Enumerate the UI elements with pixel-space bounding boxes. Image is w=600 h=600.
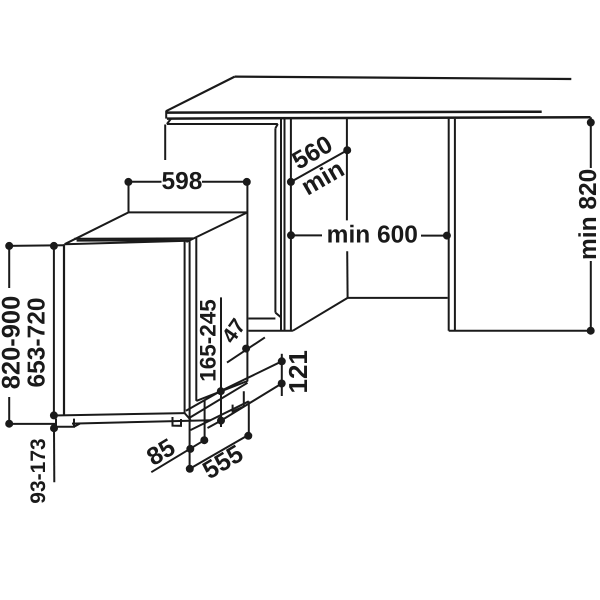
svg-text:165-245: 165-245: [196, 299, 221, 382]
niche floor slant edge: [293, 298, 348, 331]
dimension 47 leader: [227, 337, 265, 362]
niche left wall back edge: [290, 119, 292, 331]
niche back-left corner edge upper: [346, 118, 348, 221]
dimension 121 line: [281, 354, 283, 396]
left cabinet top edge: [167, 123, 278, 125]
worktop left end cap: [165, 111, 167, 119]
dishwasher feet bottom perspective line: [190, 401, 248, 430]
dishwasher front right foot: [173, 417, 182, 426]
dimension 93-173 top dot: [50, 424, 58, 432]
worktop front lower edge: [167, 117, 591, 118]
worktop top edge: [235, 77, 572, 79]
dishwasher door right reveal edge with extension to 85/555 dots: [189, 241, 191, 469]
dishwasher side bottom upper edge: [196, 381, 247, 401]
left cabinet bottom right chamfer: [275, 313, 281, 318]
dishwasher door bottom edge: [54, 413, 185, 415]
dimension 555 right extension: [248, 401, 250, 436]
dimension 555 line: [190, 435, 248, 469]
dimension min 820 line: [590, 117, 592, 330]
dimension 93-173 line: [53, 428, 55, 482]
left cabinet right edge: [274, 128, 276, 312]
dishwasher front left edge: [63, 244, 65, 415]
dimension min 600 left dot: [287, 231, 295, 239]
dimension 820-900 top dot: [5, 242, 13, 250]
dimension 165-245 line: [220, 297, 222, 427]
left cabinet top right chamfer: [275, 124, 277, 128]
dimension 598 line: [128, 181, 246, 183]
svg-text:85: 85: [142, 433, 180, 471]
left cabinet front-left edge: [164, 125, 166, 161]
dimension 598 left dot: [124, 178, 132, 186]
door front lower dot: [217, 417, 225, 425]
dishwasher door panel top edge: [65, 241, 188, 244]
dimension 598 left extension: [128, 182, 130, 213]
svg-text:555: 555: [198, 440, 248, 486]
svg-text:min 600: min 600: [327, 222, 418, 249]
dimension 560 min left dot: [287, 178, 295, 186]
dimension 121 upper leader: [186, 361, 282, 411]
bottom extension line to foot: [9, 423, 56, 425]
dimension 85 left dot: [186, 445, 194, 453]
dimension 121 lower dot: [278, 380, 286, 388]
dimension 555 right dot: [244, 432, 252, 440]
dishwasher door top edge: [77, 239, 190, 241]
dimension 85 right dot: [200, 436, 208, 444]
worktop left slant edge: [166, 77, 235, 112]
dishwasher door bottom corner step: [185, 413, 191, 420]
left cabinet bottom edge: [249, 318, 276, 320]
dimension 653-720 bottom dot: [50, 411, 58, 419]
dimension min 600 right dot: [443, 232, 451, 240]
dishwasher front left foot: [56, 419, 80, 427]
dimension 820-900 line: [8, 246, 10, 424]
dimension 165-245 dot: [217, 387, 225, 395]
dimension 560 min diagonal line: [291, 150, 347, 182]
dimension 653-720 line: [53, 246, 55, 416]
dimension 555 left dot: [186, 465, 194, 473]
dimension 598 right dot: [243, 178, 251, 186]
top extension line to dishwasher corner: [9, 244, 64, 247]
niche right wall front edge: [448, 119, 450, 331]
dishwasher side bottom lower edge: [190, 383, 248, 418]
svg-text:93-173: 93-173: [27, 438, 50, 503]
dimension 121 lower leader: [208, 384, 282, 429]
niche floor edge: [348, 297, 448, 299]
dimension 121 upper dot: [278, 357, 286, 365]
dimension 47 dot: [242, 345, 250, 353]
dimension min 820 top dot: [587, 119, 595, 127]
dishwasher top right slant edge: [186, 212, 247, 242]
svg-text:598: 598: [162, 168, 203, 195]
dimension 85 right extension: [204, 400, 206, 440]
dimension 560 min right dot: [343, 146, 351, 154]
dimension min 820 bottom dot: [587, 327, 595, 335]
niche left wall inner edge: [284, 119, 286, 331]
dimension 653-720 top dot: [50, 242, 58, 250]
svg-text:min 820: min 820: [575, 169, 600, 260]
floor line right: [449, 330, 591, 332]
niche left wall front edge: [280, 119, 282, 331]
worktop front upper edge: [167, 110, 542, 113]
dishwasher top front edge: [74, 237, 193, 239]
dishwasher rear foot: [233, 391, 244, 411]
left cabinet top left chamfer: [167, 119, 171, 124]
dimension 85 line: [151, 440, 204, 472]
dimension min 600 line: [291, 234, 447, 236]
dishwasher side front edge: [195, 238, 197, 401]
svg-text:47: 47: [217, 314, 250, 347]
svg-text:653-720: 653-720: [24, 298, 51, 388]
svg-text:820-900: 820-900: [0, 296, 26, 390]
niche right wall outer edge: [454, 119, 456, 331]
dishwasher top left slant edge: [65, 212, 129, 244]
svg-text:121: 121: [283, 350, 313, 393]
dimension 820-900 bottom dot: [5, 420, 13, 428]
niche left wall bottom cap: [249, 330, 293, 332]
dishwasher plinth bottom edge: [72, 420, 211, 423]
dimension 598 right extension / dishwasher back right edge: [246, 182, 248, 382]
dishwasher door right edge: [184, 241, 186, 413]
dishwasher top back edge: [129, 211, 248, 213]
niche back-left corner edge lower: [346, 251, 348, 298]
